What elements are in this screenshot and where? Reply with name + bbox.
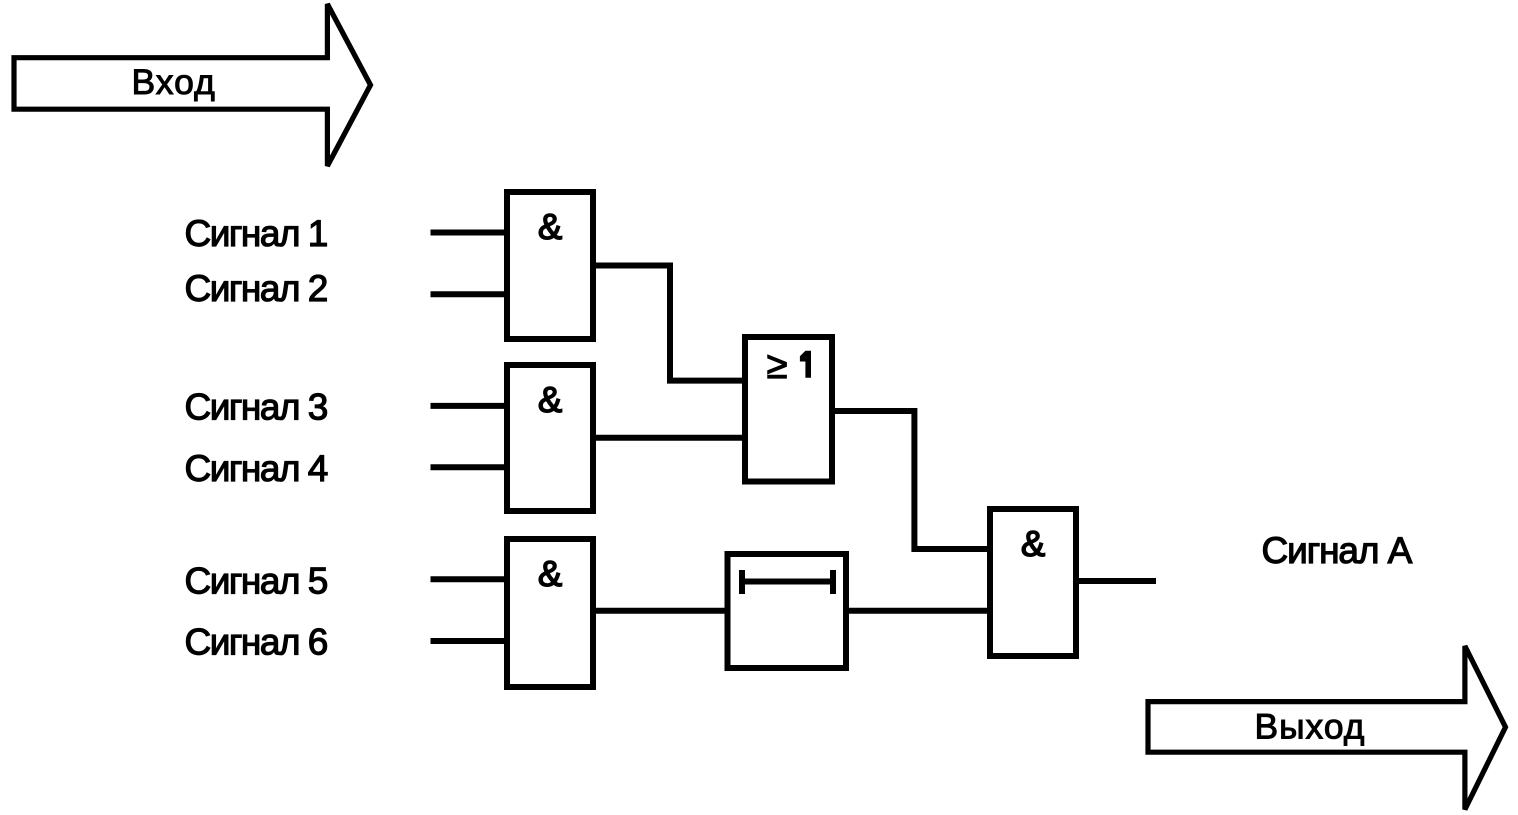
- wire U6 output (Сигнал А): [1076, 578, 1156, 584]
- svg-text:Сигнал 4: Сигнал 4: [185, 448, 328, 489]
- svg-text:Сигнал 2: Сигнал 2: [185, 268, 327, 309]
- svg-text:Выход: Выход: [1255, 707, 1366, 747]
- wire Сигнал 2 input: [431, 291, 508, 297]
- input arrow (Вход block arrow): [14, 4, 371, 166]
- output arrow (Выход block arrow): [1148, 646, 1506, 810]
- wire Сигнал 3 input: [431, 403, 508, 409]
- timer block U5 box: [728, 554, 847, 668]
- svg-text:≥: ≥: [767, 345, 788, 387]
- svg-text:&: &: [538, 379, 562, 420]
- wire U4 output to U6 input: [832, 411, 990, 549]
- wire U1 output to U4 input: [593, 266, 745, 381]
- wire U3 output to U5 input: [593, 608, 728, 614]
- svg-text:Сигнал 6: Сигнал 6: [185, 622, 327, 663]
- AND gate U1 box: [507, 192, 593, 339]
- AND gate U6 box: [990, 509, 1076, 656]
- svg-text:&: &: [538, 553, 562, 594]
- wire Сигнал 4 input: [431, 464, 508, 470]
- timer block U5 pulse-width symbol: [742, 570, 833, 594]
- svg-text:Сигнал 1: Сигнал 1: [185, 213, 327, 254]
- AND gate U3 box: [507, 539, 593, 687]
- wire U2 output to U4 input: [593, 435, 745, 441]
- svg-text:&: &: [1021, 523, 1045, 564]
- svg-text:Вход: Вход: [132, 62, 216, 102]
- svg-text:Сигнал А: Сигнал А: [1262, 530, 1413, 571]
- wire Сигнал 5 input: [431, 576, 508, 582]
- wire Сигнал 1 input: [431, 230, 508, 236]
- wire U5 output to U6 input: [846, 608, 990, 614]
- AND gate U2 box: [507, 365, 593, 511]
- wire Сигнал 6 input: [431, 638, 508, 644]
- OR gate U4 box: [745, 337, 832, 482]
- svg-text:&: &: [538, 206, 562, 247]
- svg-text:Сигнал 5: Сигнал 5: [185, 560, 328, 601]
- svg-text:Сигнал 3: Сигнал 3: [185, 387, 327, 428]
